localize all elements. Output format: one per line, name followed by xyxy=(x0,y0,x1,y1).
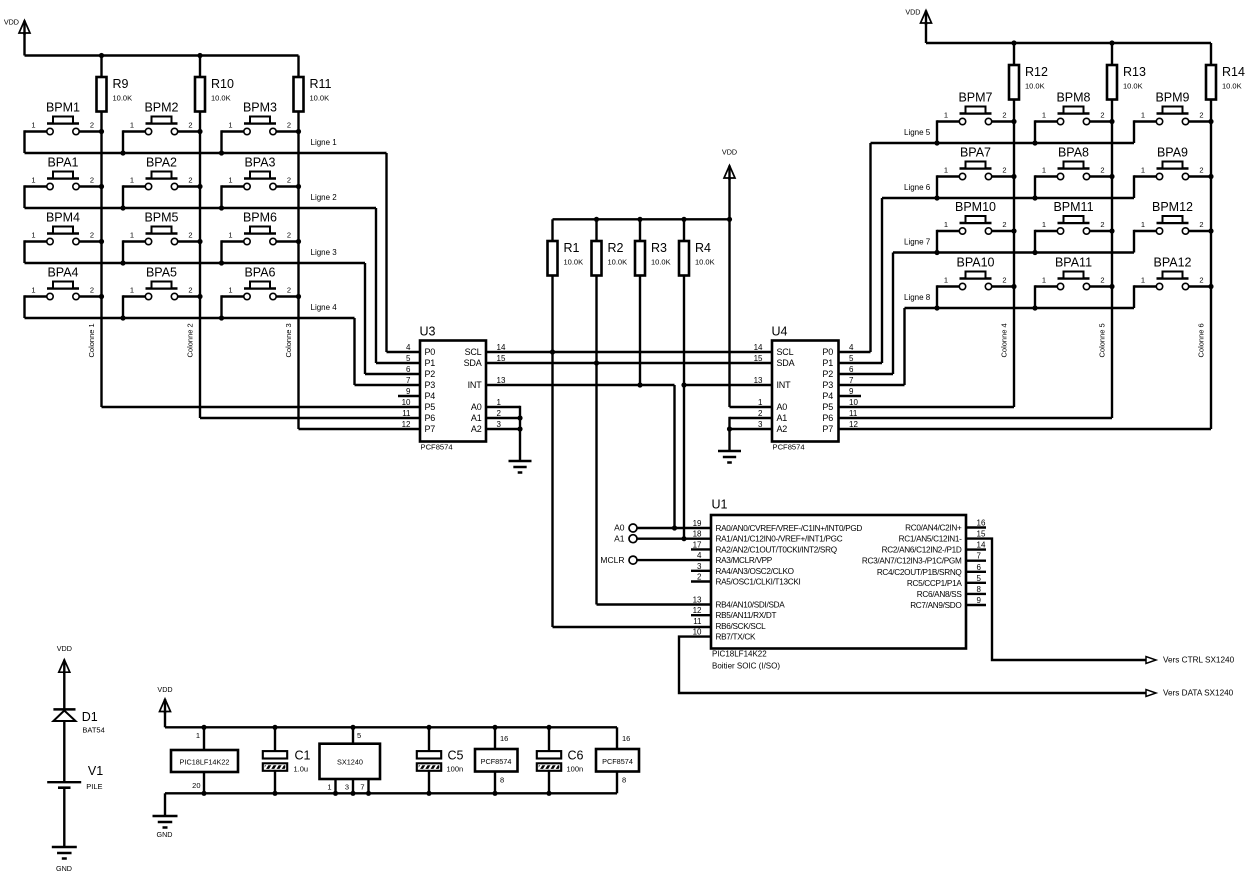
svg-text:RC7/AN9/SDO: RC7/AN9/SDO xyxy=(910,601,961,610)
svg-text:INT: INT xyxy=(468,380,483,390)
svg-text:6: 6 xyxy=(406,365,411,374)
svg-text:9: 9 xyxy=(977,596,982,605)
svg-text:2: 2 xyxy=(90,231,94,240)
svg-text:11: 11 xyxy=(402,409,411,418)
svg-text:1: 1 xyxy=(31,231,35,240)
svg-text:6: 6 xyxy=(977,563,982,572)
svg-text:16: 16 xyxy=(977,519,986,528)
svg-text:1: 1 xyxy=(228,176,232,185)
svg-text:1: 1 xyxy=(1042,276,1046,285)
svg-text:P6: P6 xyxy=(822,413,833,423)
svg-text:5: 5 xyxy=(406,354,411,363)
svg-text:2: 2 xyxy=(1002,166,1006,175)
svg-text:SX1240: SX1240 xyxy=(337,758,363,767)
svg-text:R1: R1 xyxy=(564,241,580,255)
svg-text:Vers DATA SX1240: Vers DATA SX1240 xyxy=(1163,689,1234,698)
svg-text:BPM4: BPM4 xyxy=(46,211,80,225)
svg-text:2: 2 xyxy=(90,121,94,130)
svg-text:16: 16 xyxy=(500,734,508,743)
svg-text:R4: R4 xyxy=(695,241,711,255)
svg-text:A0: A0 xyxy=(471,402,482,412)
svg-text:2: 2 xyxy=(1100,220,1104,229)
svg-text:15: 15 xyxy=(497,354,506,363)
svg-text:13: 13 xyxy=(693,596,702,605)
svg-text:1: 1 xyxy=(1042,111,1046,120)
svg-text:7: 7 xyxy=(977,552,982,561)
svg-text:1: 1 xyxy=(327,783,331,792)
svg-text:BPA11: BPA11 xyxy=(1055,256,1092,270)
svg-text:8: 8 xyxy=(500,776,504,785)
svg-text:BPM9: BPM9 xyxy=(1155,91,1189,105)
svg-text:PCF8574: PCF8574 xyxy=(602,757,633,766)
svg-text:1: 1 xyxy=(944,111,948,120)
svg-text:1: 1 xyxy=(228,231,232,240)
svg-text:1: 1 xyxy=(1141,220,1145,229)
svg-text:RB6/SCK/SCL: RB6/SCK/SCL xyxy=(716,622,767,631)
svg-text:BPA5: BPA5 xyxy=(146,266,177,280)
svg-text:R3: R3 xyxy=(651,241,667,255)
svg-text:BPM10: BPM10 xyxy=(955,200,996,214)
svg-text:BPM11: BPM11 xyxy=(1053,200,1093,214)
svg-text:INT: INT xyxy=(777,380,792,390)
svg-text:10: 10 xyxy=(849,398,858,407)
svg-text:14: 14 xyxy=(977,541,986,550)
svg-text:100n: 100n xyxy=(447,765,464,774)
svg-text:C6: C6 xyxy=(568,749,584,763)
svg-text:SDA: SDA xyxy=(464,358,482,368)
svg-text:2: 2 xyxy=(90,176,94,185)
svg-text:10.0K: 10.0K xyxy=(1123,82,1143,91)
svg-text:A1: A1 xyxy=(471,413,482,423)
svg-text:P1: P1 xyxy=(822,358,833,368)
svg-text:Colonne 1: Colonne 1 xyxy=(87,323,96,357)
svg-text:BPM8: BPM8 xyxy=(1056,91,1090,105)
svg-text:18: 18 xyxy=(693,530,702,539)
svg-text:2: 2 xyxy=(1199,166,1203,175)
svg-text:R9: R9 xyxy=(113,77,129,91)
svg-text:10.0K: 10.0K xyxy=(310,94,330,103)
svg-text:1: 1 xyxy=(130,176,134,185)
svg-text:2: 2 xyxy=(1100,276,1104,285)
svg-text:VDD: VDD xyxy=(722,148,737,157)
svg-text:1: 1 xyxy=(1141,276,1145,285)
svg-text:A0: A0 xyxy=(777,402,788,412)
svg-text:2: 2 xyxy=(287,286,291,295)
svg-text:2: 2 xyxy=(1199,220,1203,229)
svg-text:VDD: VDD xyxy=(4,18,19,27)
svg-text:R13: R13 xyxy=(1123,65,1146,79)
svg-text:16: 16 xyxy=(622,734,630,743)
svg-text:20: 20 xyxy=(192,781,200,790)
svg-text:1: 1 xyxy=(31,286,35,295)
svg-text:Ligne 8: Ligne 8 xyxy=(904,293,931,302)
svg-text:10.0K: 10.0K xyxy=(1222,82,1242,91)
svg-text:4: 4 xyxy=(406,343,411,352)
svg-text:5: 5 xyxy=(977,574,982,583)
svg-text:2: 2 xyxy=(90,286,94,295)
svg-text:BPA6: BPA6 xyxy=(244,266,275,280)
svg-text:RA5/OSC1/CLKI/T13CKI: RA5/OSC1/CLKI/T13CKI xyxy=(716,578,801,587)
svg-text:Boitier SOIC (I/SO): Boitier SOIC (I/SO) xyxy=(712,662,780,671)
svg-text:1: 1 xyxy=(1042,220,1046,229)
svg-text:BAT54: BAT54 xyxy=(82,726,104,735)
svg-text:7: 7 xyxy=(406,376,411,385)
svg-text:P0: P0 xyxy=(822,347,833,357)
svg-text:RC2/AN6/C12IN2-/P1D: RC2/AN6/C12IN2-/P1D xyxy=(882,546,962,555)
svg-text:14: 14 xyxy=(754,343,763,352)
svg-text:VDD: VDD xyxy=(157,685,172,694)
svg-text:1: 1 xyxy=(130,231,134,240)
svg-text:A0: A0 xyxy=(614,523,625,533)
svg-text:PIC18LF14K22: PIC18LF14K22 xyxy=(712,650,767,659)
svg-text:R10: R10 xyxy=(211,77,234,91)
svg-text:1: 1 xyxy=(196,731,200,740)
svg-text:R14: R14 xyxy=(1222,65,1245,79)
svg-text:2: 2 xyxy=(188,286,192,295)
svg-text:11: 11 xyxy=(849,409,858,418)
svg-text:100n: 100n xyxy=(567,765,584,774)
svg-text:3: 3 xyxy=(497,420,502,429)
svg-text:RC4/C2OUT/P1B/SRNQ: RC4/C2OUT/P1B/SRNQ xyxy=(877,568,962,577)
svg-text:RC3/AN7/C12IN3-/P1C/PGM: RC3/AN7/C12IN3-/P1C/PGM xyxy=(862,557,962,566)
svg-text:Ligne 5: Ligne 5 xyxy=(904,128,931,137)
svg-text:2: 2 xyxy=(1002,220,1006,229)
svg-text:1: 1 xyxy=(758,398,763,407)
svg-text:P5: P5 xyxy=(822,402,833,412)
svg-text:12: 12 xyxy=(402,420,411,429)
svg-text:BPM7: BPM7 xyxy=(958,91,992,105)
svg-text:RA2/AN2/C1OUT/T0CKI/INT2/SRQ: RA2/AN2/C1OUT/T0CKI/INT2/SRQ xyxy=(716,545,837,554)
svg-text:1: 1 xyxy=(944,276,948,285)
svg-text:SCL: SCL xyxy=(777,347,794,357)
svg-text:1: 1 xyxy=(130,121,134,130)
svg-text:P5: P5 xyxy=(425,402,436,412)
svg-text:RC6/AN8/SS: RC6/AN8/SS xyxy=(917,590,963,599)
svg-text:P4: P4 xyxy=(425,391,436,401)
svg-text:Ligne 4: Ligne 4 xyxy=(311,303,338,312)
svg-text:5: 5 xyxy=(849,354,854,363)
svg-text:3: 3 xyxy=(697,562,702,571)
svg-text:P7: P7 xyxy=(425,424,436,434)
svg-text:P7: P7 xyxy=(822,424,833,434)
svg-text:2: 2 xyxy=(188,121,192,130)
svg-text:RA0/AN0/CVREF/VREF-/C1IN+/INT0: RA0/AN0/CVREF/VREF-/C1IN+/INT0/PGD xyxy=(716,524,863,533)
svg-text:Ligne 3: Ligne 3 xyxy=(311,248,338,257)
svg-text:A2: A2 xyxy=(777,424,788,434)
svg-text:RC0/AN4/C2IN+: RC0/AN4/C2IN+ xyxy=(905,524,962,533)
svg-text:RA4/AN3/OSC2/CLKO: RA4/AN3/OSC2/CLKO xyxy=(716,567,794,576)
svg-text:Ligne 6: Ligne 6 xyxy=(904,183,931,192)
svg-text:2: 2 xyxy=(1002,276,1006,285)
svg-text:BPA1: BPA1 xyxy=(47,156,78,170)
svg-text:2: 2 xyxy=(287,121,291,130)
svg-text:BPA9: BPA9 xyxy=(1157,146,1188,160)
svg-text:10.0K: 10.0K xyxy=(113,94,133,103)
svg-text:Ligne 7: Ligne 7 xyxy=(904,238,931,247)
svg-text:VDD: VDD xyxy=(905,8,920,17)
svg-text:PCF8574: PCF8574 xyxy=(421,443,453,452)
svg-text:RC1/AN5/C12IN1-: RC1/AN5/C12IN1- xyxy=(899,535,962,544)
svg-text:P1: P1 xyxy=(425,358,436,368)
svg-text:1: 1 xyxy=(944,166,948,175)
svg-text:1: 1 xyxy=(1141,111,1145,120)
svg-text:Colonne 4: Colonne 4 xyxy=(1000,323,1009,357)
svg-text:A2: A2 xyxy=(471,424,482,434)
svg-text:10.0K: 10.0K xyxy=(695,258,715,267)
svg-text:PCF8574: PCF8574 xyxy=(773,443,805,452)
svg-text:2: 2 xyxy=(287,176,291,185)
svg-text:1: 1 xyxy=(497,398,502,407)
svg-text:1: 1 xyxy=(1042,166,1046,175)
svg-text:BPA12: BPA12 xyxy=(1154,256,1192,270)
svg-text:Ligne 2: Ligne 2 xyxy=(311,193,338,202)
svg-text:RC5/CCP1/P1A: RC5/CCP1/P1A xyxy=(907,579,962,588)
svg-text:10.0K: 10.0K xyxy=(608,258,628,267)
svg-text:Colonne 5: Colonne 5 xyxy=(1098,323,1107,357)
svg-text:U3: U3 xyxy=(420,325,436,339)
svg-text:2: 2 xyxy=(188,231,192,240)
svg-text:2: 2 xyxy=(287,231,291,240)
svg-text:10.0K: 10.0K xyxy=(564,258,584,267)
svg-text:7: 7 xyxy=(360,783,364,792)
svg-text:P4: P4 xyxy=(822,391,833,401)
svg-text:10: 10 xyxy=(693,628,702,637)
svg-text:P3: P3 xyxy=(425,380,436,390)
svg-text:BPM2: BPM2 xyxy=(144,101,178,115)
svg-text:11: 11 xyxy=(693,617,702,626)
svg-text:7: 7 xyxy=(849,376,854,385)
svg-text:14: 14 xyxy=(497,343,506,352)
svg-text:C1: C1 xyxy=(295,749,311,763)
svg-text:3: 3 xyxy=(758,420,763,429)
svg-text:A1: A1 xyxy=(777,413,788,423)
svg-text:R11: R11 xyxy=(310,77,332,91)
svg-text:1: 1 xyxy=(31,176,35,185)
svg-text:2: 2 xyxy=(497,409,502,418)
svg-text:8: 8 xyxy=(977,585,982,594)
svg-text:2: 2 xyxy=(697,573,702,582)
svg-text:2: 2 xyxy=(1199,276,1203,285)
svg-text:2: 2 xyxy=(1100,111,1104,120)
svg-text:P3: P3 xyxy=(822,380,833,390)
svg-text:PCF8574: PCF8574 xyxy=(481,757,512,766)
svg-text:3: 3 xyxy=(345,783,349,792)
svg-text:13: 13 xyxy=(497,376,506,385)
svg-text:PIC18LF14K22: PIC18LF14K22 xyxy=(180,758,230,767)
svg-text:1: 1 xyxy=(228,121,232,130)
svg-text:BPA4: BPA4 xyxy=(47,266,78,280)
svg-text:5: 5 xyxy=(357,731,361,740)
svg-text:2: 2 xyxy=(758,409,763,418)
svg-text:1: 1 xyxy=(130,286,134,295)
svg-text:BPM5: BPM5 xyxy=(144,211,178,225)
svg-text:P2: P2 xyxy=(425,369,436,379)
svg-text:R12: R12 xyxy=(1025,65,1048,79)
svg-text:1: 1 xyxy=(944,220,948,229)
svg-text:RA1/AN1/C12IN0-/VREF+/INT1/PGC: RA1/AN1/C12IN0-/VREF+/INT1/PGC xyxy=(716,535,843,544)
svg-text:U4: U4 xyxy=(772,325,788,339)
svg-text:BPM6: BPM6 xyxy=(243,211,277,225)
svg-text:8: 8 xyxy=(622,776,626,785)
svg-text:10.0K: 10.0K xyxy=(651,258,671,267)
svg-text:RB7/TX/CK: RB7/TX/CK xyxy=(716,633,756,642)
svg-text:BPA2: BPA2 xyxy=(146,156,177,170)
svg-text:Colonne 3: Colonne 3 xyxy=(284,323,293,357)
svg-text:P2: P2 xyxy=(822,369,833,379)
svg-text:4: 4 xyxy=(849,343,854,352)
svg-text:BPA7: BPA7 xyxy=(960,146,991,160)
svg-text:BPA3: BPA3 xyxy=(244,156,275,170)
svg-text:PILE: PILE xyxy=(86,782,102,791)
svg-text:A1: A1 xyxy=(614,534,625,544)
svg-text:10.0K: 10.0K xyxy=(211,94,231,103)
svg-text:GND: GND xyxy=(157,830,173,839)
svg-text:BPM3: BPM3 xyxy=(243,101,277,115)
svg-text:Colonne 2: Colonne 2 xyxy=(186,323,195,357)
svg-text:15: 15 xyxy=(977,530,986,539)
svg-text:RB5/AN11/RX/DT: RB5/AN11/RX/DT xyxy=(716,611,777,620)
svg-text:2: 2 xyxy=(188,176,192,185)
svg-text:GND: GND xyxy=(56,864,72,873)
svg-text:12: 12 xyxy=(693,606,702,615)
svg-text:2: 2 xyxy=(1002,111,1006,120)
svg-text:BPM12: BPM12 xyxy=(1152,200,1193,214)
svg-text:13: 13 xyxy=(754,376,763,385)
svg-text:2: 2 xyxy=(1100,166,1104,175)
svg-text:MCLR: MCLR xyxy=(600,555,624,565)
svg-text:6: 6 xyxy=(849,365,854,374)
svg-text:4: 4 xyxy=(697,551,702,560)
svg-text:V1: V1 xyxy=(88,764,103,778)
svg-text:Vers CTRL SX1240: Vers CTRL SX1240 xyxy=(1163,656,1235,665)
svg-text:1: 1 xyxy=(31,121,35,130)
svg-text:U1: U1 xyxy=(712,498,728,512)
svg-text:9: 9 xyxy=(406,387,411,396)
svg-text:SCL: SCL xyxy=(465,347,482,357)
svg-text:RB4/AN10/SDI/SDA: RB4/AN10/SDI/SDA xyxy=(716,601,786,610)
svg-text:BPA10: BPA10 xyxy=(957,256,995,270)
svg-text:15: 15 xyxy=(754,354,763,363)
svg-text:10: 10 xyxy=(402,398,411,407)
svg-text:2: 2 xyxy=(1199,111,1203,120)
svg-text:Colonne 6: Colonne 6 xyxy=(1197,323,1206,357)
svg-text:P0: P0 xyxy=(425,347,436,357)
svg-text:1.0u: 1.0u xyxy=(294,765,309,774)
svg-text:12: 12 xyxy=(849,420,858,429)
svg-text:1: 1 xyxy=(1141,166,1145,175)
svg-text:RA3/MCLR/VPP: RA3/MCLR/VPP xyxy=(716,556,773,565)
svg-text:10.0K: 10.0K xyxy=(1025,82,1045,91)
svg-text:BPA8: BPA8 xyxy=(1058,146,1089,160)
svg-text:P6: P6 xyxy=(425,413,436,423)
svg-text:VDD: VDD xyxy=(57,644,72,653)
svg-text:9: 9 xyxy=(849,387,854,396)
svg-text:1: 1 xyxy=(228,286,232,295)
svg-text:BPM1: BPM1 xyxy=(46,101,80,115)
svg-text:Ligne 1: Ligne 1 xyxy=(311,138,338,147)
svg-text:19: 19 xyxy=(693,519,702,528)
svg-text:D1: D1 xyxy=(82,710,98,724)
svg-text:SDA: SDA xyxy=(777,358,795,368)
svg-text:C5: C5 xyxy=(448,749,464,763)
svg-text:R2: R2 xyxy=(608,241,624,255)
svg-text:17: 17 xyxy=(693,540,702,549)
